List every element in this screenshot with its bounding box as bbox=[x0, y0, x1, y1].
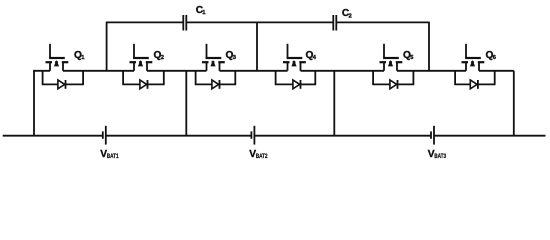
battery cell VBAT1 bbox=[103, 126, 106, 145]
wire: VBAT1 to VBAT2 bbox=[106, 135, 252, 137]
wire: bottom left stub to VBAT1 bbox=[3, 135, 103, 137]
transistor Q1 (MOSFET) bbox=[46, 44, 69, 71]
wire: riser node B (Q3-Q4 junction) to C1/C2 junction bbox=[256, 22, 258, 70]
body diode D3 of Q3 bbox=[195, 71, 236, 89]
wire: VBAT2 to VBAT3 bbox=[254, 135, 431, 137]
svg-text:BAT2: BAT2 bbox=[256, 153, 268, 160]
wire: riser node C (Q5-Q6 junction) to top wire bbox=[428, 22, 430, 71]
body diode D2 of Q2 bbox=[122, 71, 164, 89]
svg-text:2: 2 bbox=[349, 13, 352, 19]
transistor Q3 (MOSFET) bbox=[202, 44, 225, 71]
body diode D4 of Q4 bbox=[275, 71, 316, 89]
svg-text:5: 5 bbox=[410, 55, 414, 61]
transistor Q4 (MOSFET) bbox=[283, 44, 306, 71]
capacitor C2 bbox=[333, 15, 336, 31]
wire: riser Q2/Q3 junction down to VBAT1/VBAT2 junction bbox=[185, 71, 187, 136]
top wire: node A to C1 left plate bbox=[107, 21, 183, 23]
svg-text:BAT3: BAT3 bbox=[434, 153, 446, 160]
transistor Q2 (MOSFET) bbox=[130, 44, 153, 71]
svg-text:6: 6 bbox=[493, 55, 497, 61]
svg-text:2: 2 bbox=[161, 55, 164, 61]
wire: left riser down to battery string negative bbox=[33, 71, 35, 136]
wire: Q4 drain to Q5 source bbox=[301, 70, 385, 72]
body diode D6 of Q6 bbox=[454, 71, 495, 89]
svg-text:1: 1 bbox=[81, 55, 85, 61]
capacitor C1 bbox=[183, 15, 186, 31]
wire: C2 right plate to top-right corner bbox=[337, 21, 429, 23]
body diode D1 of Q1 bbox=[42, 71, 84, 89]
battery cell VBAT2 bbox=[251, 126, 254, 145]
svg-text:BAT1: BAT1 bbox=[107, 153, 119, 160]
wire: Q1 drain to Q2 source (node A) bbox=[63, 70, 134, 72]
body diode D5 of Q5 bbox=[372, 71, 414, 89]
battery cell VBAT3 bbox=[431, 126, 434, 145]
transistor Q5 (MOSFET) bbox=[380, 44, 403, 71]
wire: right riser down to battery string positive bbox=[513, 71, 515, 136]
wire: riser Q4/Q5 junction down to VBAT2/VBAT3 junction bbox=[333, 71, 335, 136]
wire: C1 right plate to C2 left plate (node B tap) bbox=[187, 21, 333, 23]
wire: left end to Q1 source bbox=[33, 70, 50, 72]
svg-text:1: 1 bbox=[202, 10, 206, 16]
wire: Q5 drain to Q6 source (node C) bbox=[397, 70, 466, 72]
wire: Q3 drain to Q4 source (node B) bbox=[220, 70, 288, 72]
svg-text:3: 3 bbox=[233, 55, 237, 61]
svg-text:4: 4 bbox=[313, 55, 317, 61]
wire: Q2 drain to Q3 source bbox=[147, 70, 207, 72]
wire: Q6 drain to right end bbox=[479, 70, 514, 72]
wire: VBAT3 to bottom right stub bbox=[434, 135, 546, 137]
wire: riser node A (Q1-Q2 junction) to top wire bbox=[106, 22, 108, 71]
transistor Q6 (MOSFET) bbox=[462, 44, 485, 71]
